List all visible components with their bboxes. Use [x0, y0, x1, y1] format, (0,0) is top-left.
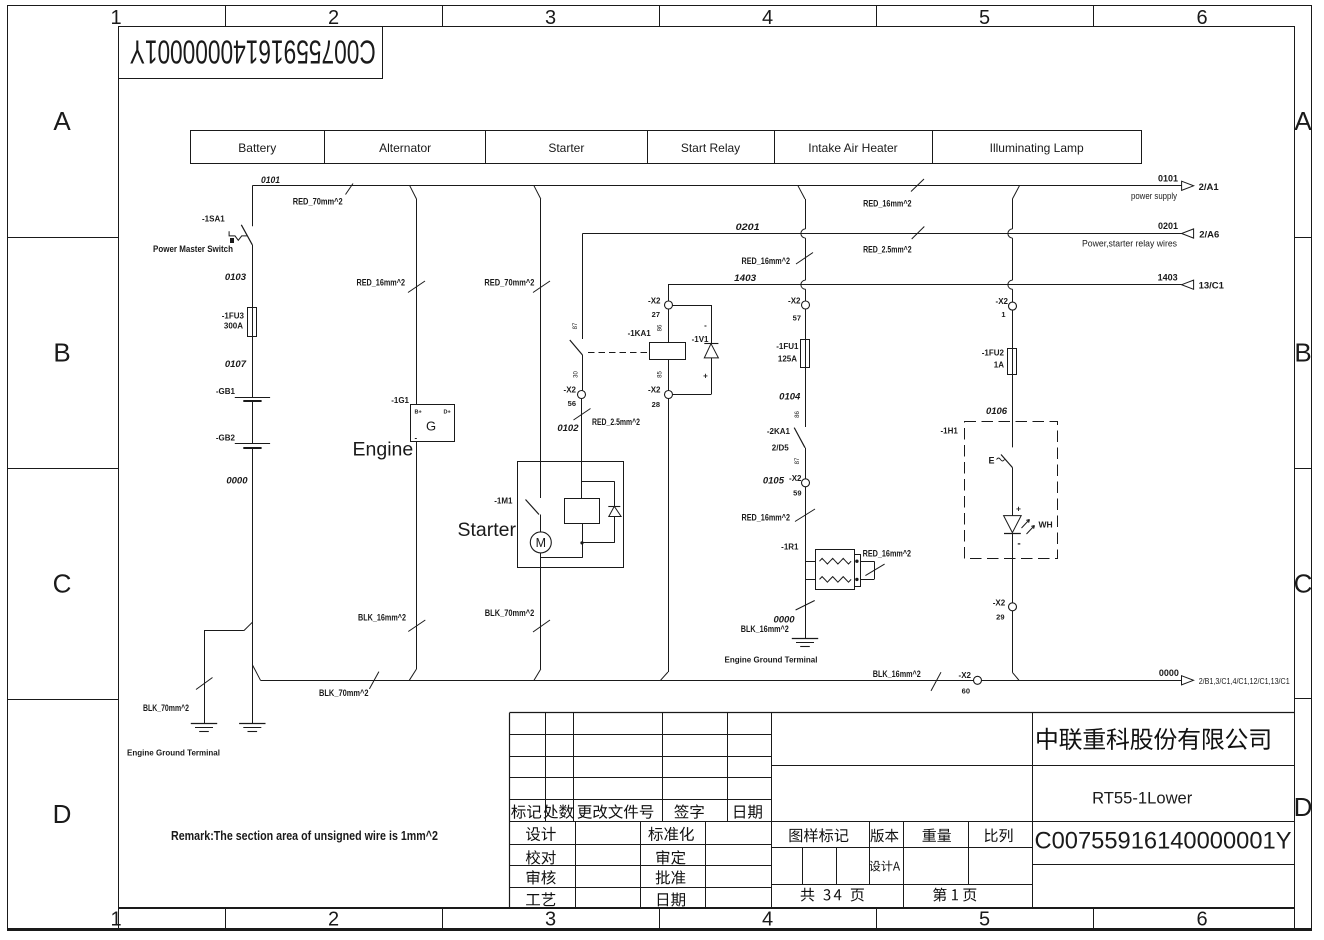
- lamp unit 1H1 dashed box: [940, 422, 1057, 559]
- wire 0106: [986, 375, 1013, 448]
- svg-text:-1KA1: -1KA1: [628, 329, 652, 338]
- svg-text:-1M1: -1M1: [494, 497, 513, 506]
- svg-text:-X2: -X2: [788, 297, 801, 306]
- svg-text:5: 5: [979, 909, 990, 931]
- svg-text:3: 3: [545, 909, 556, 931]
- LED lamp WH: [1004, 504, 1053, 550]
- svg-text:-1R1: -1R1: [781, 543, 799, 552]
- wire heater feed: [742, 186, 814, 301]
- title block: [510, 713, 1295, 908]
- svg-text:-X2: -X2: [564, 386, 577, 395]
- svg-text:4: 4: [762, 909, 773, 931]
- svg-text:0106: 0106: [986, 406, 1008, 417]
- svg-text:2: 2: [328, 909, 339, 931]
- svg-text:RED_2.5mm^2: RED_2.5mm^2: [592, 417, 640, 427]
- svg-text:RED_16mm^2: RED_16mm^2: [863, 199, 912, 209]
- solenoid coil of starter: [565, 499, 600, 524]
- title block texts: [511, 728, 1291, 907]
- svg-text:RT55-1Lower: RT55-1Lower: [1092, 789, 1193, 808]
- connector X2 pin 56: [564, 386, 586, 409]
- svg-text:28: 28: [652, 400, 660, 409]
- connector X2 pin 57: [788, 297, 809, 323]
- svg-text:-2KA1: -2KA1: [767, 427, 791, 436]
- svg-text:A: A: [1294, 106, 1312, 136]
- svg-text:BLK_16mm^2: BLK_16mm^2: [873, 669, 921, 679]
- svg-text:BLK_70mm^2: BLK_70mm^2: [319, 688, 369, 698]
- wire net 0000 ground bus: [261, 669, 1182, 698]
- ground terminal 1R1: [792, 639, 818, 647]
- remark note: [171, 828, 438, 843]
- alternator 1G1: [391, 396, 454, 443]
- switch contact inside starter: [494, 497, 540, 532]
- svg-text:Intake Air Heater: Intake Air Heater: [808, 141, 897, 155]
- svg-text:56: 56: [568, 399, 576, 408]
- svg-text:87: 87: [795, 457, 801, 464]
- svg-text:-1H1: -1H1: [940, 427, 958, 436]
- svg-text:85: 85: [658, 371, 664, 378]
- svg-text:Start Relay: Start Relay: [681, 141, 740, 155]
- svg-text:B: B: [1294, 338, 1311, 368]
- svg-text:RED_70mm^2: RED_70mm^2: [293, 197, 343, 207]
- svg-text:0201: 0201: [1158, 221, 1178, 231]
- svg-text:57: 57: [793, 314, 801, 323]
- wire join to 0000 bus: [252, 665, 260, 681]
- svg-text:RED_16mm^2: RED_16mm^2: [742, 256, 791, 266]
- svg-text:C00755916140000001Y: C00755916140000001Y: [130, 33, 376, 70]
- svg-text:27: 27: [652, 310, 660, 319]
- svg-text:60: 60: [962, 687, 970, 696]
- svg-text:+: +: [703, 372, 708, 381]
- wire lamp return to bus: [1012, 611, 1019, 681]
- svg-text:86: 86: [658, 324, 664, 331]
- svg-text:0105: 0105: [763, 476, 785, 487]
- wire 0105 to resistor: [742, 487, 816, 638]
- svg-text:-1SA1: -1SA1: [202, 215, 225, 224]
- starter unit box 1M1: [518, 462, 624, 568]
- wire coil return to ground bus: [661, 399, 669, 681]
- svg-text:-: -: [415, 434, 418, 443]
- svg-text:-X2: -X2: [959, 671, 972, 680]
- arrow 1403 to 13/C1: [1158, 272, 1225, 291]
- wire net 0201 starter relay bus: [583, 222, 1182, 255]
- svg-text:300A: 300A: [224, 322, 243, 331]
- svg-text:Illuminating Lamp: Illuminating Lamp: [990, 141, 1084, 155]
- svg-text:2/A1: 2/A1: [1199, 182, 1220, 193]
- svg-text:M: M: [536, 536, 546, 550]
- svg-text:-1FU1: -1FU1: [776, 342, 799, 351]
- wire 0201 to relay contact: [573, 234, 583, 340]
- svg-text:-X2: -X2: [789, 474, 802, 483]
- svg-text:B+: B+: [415, 410, 422, 416]
- wire alternator to ground bus: [358, 441, 425, 680]
- svg-text:D+: D+: [444, 410, 451, 416]
- svg-text:BLK_16mm^2: BLK_16mm^2: [358, 612, 406, 622]
- svg-text:E: E: [989, 456, 995, 466]
- svg-text:+: +: [1016, 504, 1021, 514]
- wire 0103: [225, 245, 253, 307]
- svg-text:BLK_70mm^2: BLK_70mm^2: [143, 703, 189, 713]
- svg-text:1: 1: [1001, 310, 1005, 319]
- svg-text:0201: 0201: [736, 222, 760, 233]
- svg-text:D: D: [1294, 792, 1313, 822]
- svg-text:2/B1,3/C1,4/C1,12/C1,13/C1: 2/B1,3/C1,4/C1,12/C1,13/C1: [1199, 677, 1290, 686]
- battery GB2: [216, 434, 270, 449]
- svg-text:Remark:The section area of uns: Remark:The section area of unsigned wire…: [171, 828, 438, 843]
- svg-text:0104: 0104: [779, 392, 801, 403]
- svg-text:86: 86: [795, 411, 801, 418]
- svg-text:1403: 1403: [1158, 272, 1178, 282]
- svg-text:RED_16mm^2: RED_16mm^2: [863, 549, 912, 559]
- svg-text:RED_16mm^2: RED_16mm^2: [742, 513, 791, 523]
- svg-text:87: 87: [573, 322, 579, 329]
- svg-text:-1FU3: -1FU3: [222, 312, 245, 321]
- arrow 0201 to 2/A6: [1082, 221, 1219, 248]
- connector X2 pin 60: [959, 671, 982, 696]
- svg-text:0107: 0107: [225, 359, 247, 370]
- svg-text:Power,starter relay wires: Power,starter relay wires: [1082, 238, 1177, 248]
- function header row: [191, 131, 1142, 164]
- svg-text:6: 6: [1196, 7, 1207, 29]
- wire battery column: [252, 186, 254, 227]
- wire alternator feed: [357, 186, 426, 404]
- svg-text:Power Master Switch: Power Master Switch: [153, 244, 233, 254]
- svg-text:RED_70mm^2: RED_70mm^2: [484, 278, 534, 288]
- svg-text:4: 4: [762, 7, 773, 29]
- switch 1SA1 Power Master Switch: [153, 215, 252, 255]
- label Engine: [353, 439, 414, 461]
- svg-text:Starter: Starter: [548, 141, 584, 155]
- connector X2 pin 28: [648, 386, 672, 410]
- connector X2 pin 1: [996, 297, 1017, 319]
- diode 1V1: [672, 305, 718, 395]
- svg-text:125A: 125A: [778, 355, 797, 364]
- connector X2 pin 29: [993, 599, 1017, 622]
- wire 0000 to engine ground: [741, 601, 815, 635]
- wire 0107: [225, 336, 253, 397]
- svg-text:Alternator: Alternator: [379, 141, 431, 155]
- wire net 0101 power bus: [252, 175, 1181, 209]
- wire starter feed: [484, 186, 550, 498]
- svg-text:59: 59: [793, 489, 801, 498]
- svg-text:1A: 1A: [994, 361, 1004, 370]
- svg-text:13/C1: 13/C1: [1199, 281, 1225, 292]
- wire 0102: [557, 409, 640, 435]
- diode inside starter: [580, 506, 621, 544]
- fuse 1FU3 300A: [222, 307, 257, 336]
- svg-text:-X2: -X2: [648, 386, 661, 395]
- svg-text:RED_2.5mm^2: RED_2.5mm^2: [863, 245, 912, 255]
- svg-text:A: A: [53, 106, 71, 136]
- lamp switch E: [989, 455, 1013, 516]
- connector X2 pin 59: [763, 474, 810, 498]
- svg-text:Engine: Engine: [353, 439, 414, 461]
- svg-text:-1G1: -1G1: [391, 396, 409, 405]
- motor M: [530, 532, 551, 553]
- svg-text:-X2: -X2: [648, 297, 661, 306]
- wire 0102 into solenoid: [581, 399, 583, 499]
- relay coil 1KA1: [650, 309, 686, 391]
- fuse 1FU2 1A: [982, 310, 1017, 375]
- svg-text:B: B: [53, 338, 70, 368]
- svg-text:power supply: power supply: [1131, 191, 1177, 201]
- svg-text:2/A6: 2/A6: [1199, 229, 1219, 240]
- svg-text:30: 30: [574, 371, 580, 378]
- svg-text:-: -: [1017, 539, 1020, 550]
- svg-text:1: 1: [110, 7, 121, 29]
- label Engine Ground Terminal right: [725, 655, 818, 665]
- svg-text:0103: 0103: [225, 272, 247, 283]
- svg-text:6: 6: [1196, 909, 1207, 931]
- wire starter to ground bus: [485, 553, 550, 680]
- svg-text:2: 2: [328, 7, 339, 29]
- svg-text:BLK_70mm^2: BLK_70mm^2: [485, 608, 535, 618]
- relay contact 1KA1: [570, 329, 651, 391]
- wire solenoid return: [541, 524, 583, 558]
- svg-text:RED_16mm^2: RED_16mm^2: [357, 278, 406, 288]
- svg-text:0101: 0101: [1158, 174, 1178, 184]
- svg-text:3: 3: [545, 7, 556, 29]
- svg-text:C00755916140000001Y: C00755916140000001Y: [1035, 828, 1292, 855]
- svg-text:-X2: -X2: [996, 297, 1009, 306]
- arrow 0101 to 2/A1: [1131, 174, 1219, 202]
- wire solenoid branch to diode: [582, 481, 615, 506]
- svg-text:G: G: [426, 419, 436, 434]
- wire GB1-GB2: [252, 401, 254, 443]
- svg-text:-: -: [704, 321, 707, 330]
- svg-text:Starter: Starter: [458, 519, 517, 541]
- arrow 0000 to 2/B1...: [1159, 668, 1290, 686]
- wire lamp feed: [1008, 186, 1020, 302]
- svg-text:0102: 0102: [557, 423, 579, 434]
- svg-text:5: 5: [979, 7, 990, 29]
- svg-text:29: 29: [996, 613, 1004, 622]
- svg-text:Battery: Battery: [238, 141, 276, 155]
- label Starter: [458, 519, 517, 541]
- connector X2 pin 27: [648, 297, 672, 320]
- svg-text:WH: WH: [1039, 520, 1053, 530]
- wire lamp to X2-29: [1012, 534, 1014, 603]
- wire 0000 down to ground: [226, 448, 252, 724]
- relay contact 2KA1 2/D5: [767, 427, 806, 479]
- battery GB1: [216, 387, 270, 401]
- svg-text:D: D: [53, 799, 72, 829]
- wire branch to left ground: [143, 622, 252, 723]
- svg-text:C: C: [1294, 569, 1313, 599]
- fuse 1FU1 125A: [776, 309, 809, 368]
- svg-text:Engine Ground Terminal: Engine Ground Terminal: [725, 655, 818, 665]
- svg-text:C: C: [53, 569, 72, 599]
- svg-text:1403: 1403: [734, 273, 757, 284]
- ground terminal left: [191, 724, 217, 732]
- svg-text:-GB1: -GB1: [216, 387, 236, 396]
- svg-text:-GB2: -GB2: [216, 434, 236, 443]
- svg-text:0101: 0101: [261, 175, 280, 186]
- svg-text:BLK_16mm^2: BLK_16mm^2: [741, 624, 789, 634]
- ground terminal battery: [239, 724, 265, 732]
- svg-text:2/D5: 2/D5: [772, 444, 789, 453]
- wire 1403 to relay coil: [668, 285, 670, 301]
- label Engine Ground Terminal left: [127, 748, 220, 758]
- svg-text:-X2: -X2: [993, 599, 1006, 608]
- svg-text:0000: 0000: [1159, 668, 1179, 678]
- svg-text:Engine Ground Terminal: Engine Ground Terminal: [127, 748, 220, 758]
- svg-text:-1FU2: -1FU2: [982, 349, 1005, 358]
- wire net 1403: [668, 273, 1182, 285]
- wire 0104: [779, 367, 805, 427]
- svg-text:-1V1: -1V1: [692, 335, 709, 344]
- svg-text:0000: 0000: [226, 476, 248, 487]
- svg-text:1: 1: [110, 909, 121, 931]
- resistor 1R1: [781, 543, 911, 590]
- barcode box C00755916140000001Y: [119, 27, 383, 79]
